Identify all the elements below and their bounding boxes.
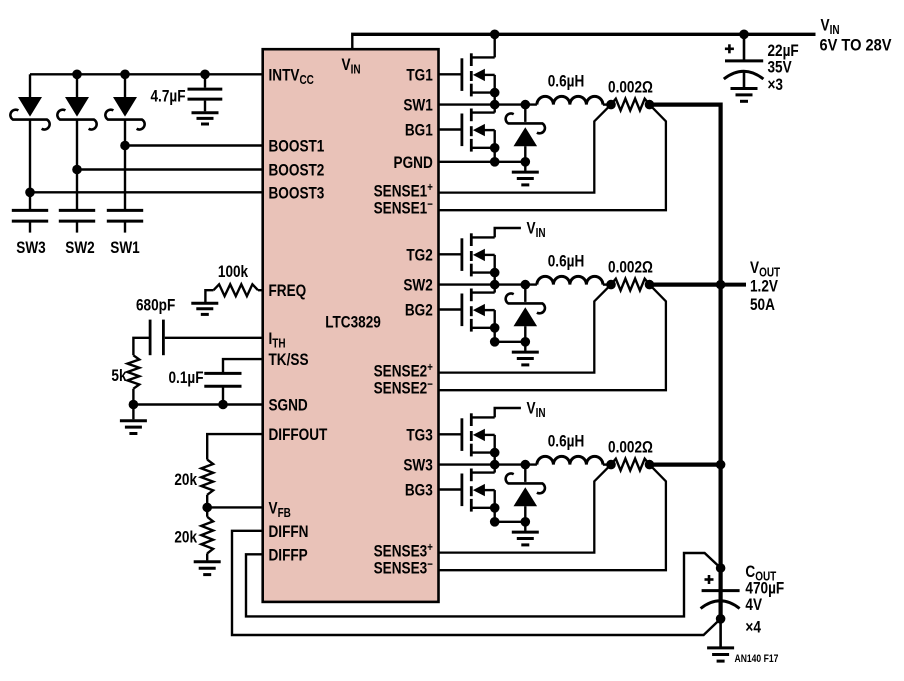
node junction R_S3 / output — [645, 460, 655, 470]
node junction D5 / INTVCC rail — [72, 70, 82, 80]
capacitor CIN 22uF plus sign — [725, 47, 734, 50]
svg-text:SGND: SGND — [269, 396, 308, 415]
svg-text:SW3: SW3 — [16, 239, 45, 258]
node junction SW2 / D2 cathode — [521, 280, 531, 290]
node junction BOOST2 / SW2 cap — [72, 165, 82, 175]
svg-text:PGND: PGND — [394, 153, 433, 172]
ground (phase 1) — [512, 172, 539, 185]
wire Q6 source to ground — [495, 521, 526, 523]
transistor Q2 bottom MOSFET phase 1 (BG1) — [439, 105, 500, 162]
wire 20k junction — [206, 495, 208, 517]
node junction COUT+ / VOUT rail — [716, 563, 726, 573]
node junction R_S1 / output — [645, 100, 655, 110]
wire D6 cathode to boost cap — [124, 120, 126, 211]
capacitor CIN 22uF top plate — [725, 59, 763, 62]
node junction Q1 drain / VIN rail — [490, 30, 500, 40]
svg-text:BG3: BG3 — [405, 481, 433, 500]
transistor Q5 top MOSFET phase 3 (TG3) — [439, 413, 500, 464]
svg-text:SW3: SW3 — [403, 456, 432, 475]
node junction phase 2 output / VOUT rail — [716, 280, 726, 290]
node junction D6 / INTVCC rail — [120, 70, 130, 80]
svg-text:SW1: SW1 — [403, 96, 433, 115]
wire SENSE1- — [439, 105, 666, 211]
wire COUT ground stub — [719, 619, 722, 647]
capacitor C3 0.1uF — [204, 373, 241, 404]
wire BOOST2 — [77, 168, 263, 170]
capacitor COUT top plate — [702, 589, 740, 592]
capacitor C_SW1 boost cap — [107, 210, 143, 232]
wire SW1 node — [439, 103, 537, 105]
schottky diode D6 (boost SW1) — [105, 74, 144, 129]
resistor R_S3 0.002 ohm — [611, 459, 650, 471]
svg-text:SENSE1+: SENSE1+ — [374, 181, 433, 201]
wire D3 anode ground stub — [524, 522, 526, 531]
resistor R_S2 0.002 ohm — [611, 279, 650, 291]
capacitor C1 4.7uF — [188, 74, 223, 111]
resistor R2 5k — [128, 355, 140, 388]
svg-text:BG2: BG2 — [405, 301, 433, 320]
wire SENSE3- — [439, 465, 666, 571]
svg-text:FREQ: FREQ — [269, 282, 307, 301]
svg-text:4V: 4V — [745, 596, 762, 615]
wire DIFFN to COUT ground side — [232, 531, 721, 635]
node junction 0.1uF / SGND wire — [218, 400, 228, 410]
svg-text:DIFFP: DIFFP — [269, 546, 308, 565]
svg-text:SW1: SW1 — [110, 239, 140, 258]
node junction VFB divider — [202, 503, 212, 513]
svg-text:TG2: TG2 — [406, 246, 432, 265]
wire D2 anode ground stub — [524, 342, 526, 351]
wire BOOST3 — [30, 191, 263, 193]
wire VOUT stub — [721, 283, 746, 287]
inductor L1 0.6uH — [537, 96, 603, 104]
wire Q1 drain to VIN rail — [494, 34, 496, 57]
svg-text:BOOST3: BOOST3 — [269, 184, 325, 203]
svg-text:LTC3829: LTC3829 — [325, 313, 381, 332]
svg-text:0.6µH: 0.6µH — [548, 432, 585, 451]
node junction L1 / R_S1 — [606, 100, 616, 110]
resistor R4 20k (bottom) — [201, 517, 213, 554]
svg-text:6V TO 28V: 6V TO 28V — [820, 37, 892, 55]
node junction Q4 source — [490, 337, 500, 347]
wire D5 cathode to boost cap — [76, 120, 78, 211]
node junction SW3 / FETs — [490, 460, 500, 470]
wire D4 cathode to boost cap — [29, 120, 31, 211]
wire 20k to ground — [206, 553, 208, 560]
svg-text:0.6µH: 0.6µH — [548, 72, 585, 91]
wire ITH pin — [165, 337, 263, 339]
schottky diode D2 phase 2 — [506, 285, 545, 342]
node junction COUT- / DIFFN — [716, 614, 726, 624]
node junction Q6 source — [490, 517, 500, 527]
node junction SW3 / D3 cathode — [521, 460, 531, 470]
svg-text:4.7µF: 4.7µF — [150, 87, 185, 106]
node junction L2 / R_S2 — [606, 280, 616, 290]
wire VIN riser from U1 VIN pin — [351, 36, 353, 50]
wire CIN top lead — [743, 34, 746, 60]
capacitor COUT plus sign — [705, 578, 714, 581]
svg-text:0.002Ω: 0.002Ω — [608, 438, 653, 457]
wire 5k to SGND — [132, 389, 134, 405]
svg-text:5k: 5k — [111, 367, 127, 386]
transistor Q3 top MOSFET phase 2 (TG2) — [439, 233, 500, 284]
capacitor COUT curved plate — [701, 601, 740, 609]
svg-text:BOOST1: BOOST1 — [269, 137, 325, 156]
op-amp U1 LTC3829 controller body — [263, 49, 439, 602]
svg-text:0.002Ω: 0.002Ω — [608, 78, 653, 97]
svg-text:SENSE3−: SENSE3− — [374, 558, 433, 578]
svg-text:100k: 100k — [218, 263, 249, 282]
resistor R_S1 0.002 ohm — [611, 99, 650, 111]
transistor Q1 top MOSFET phase 1 (TG1) — [439, 53, 500, 104]
node junction SW1 / FETs — [490, 100, 500, 110]
node junction CIN / VIN rail — [739, 30, 749, 40]
node junction C1 / INTVCC rail — [200, 70, 210, 80]
svg-text:TG3: TG3 — [406, 426, 432, 445]
node junction D1 anode — [521, 157, 531, 167]
svg-text:TG1: TG1 — [406, 66, 433, 85]
wire VIN input rail (top) — [351, 33, 815, 36]
svg-text:AN140 F17: AN140 F17 — [735, 653, 779, 665]
svg-text:0.002Ω: 0.002Ω — [608, 258, 653, 277]
wire COUT bottom lead — [719, 601, 722, 619]
node junction SW1 / D1 cathode — [521, 100, 531, 110]
node junction 5k / SGND — [129, 400, 139, 410]
wire DIFFOUT pin — [207, 434, 263, 460]
svg-text:35V: 35V — [768, 58, 793, 77]
node junction D2 anode — [521, 337, 531, 347]
resistor R1 100k — [214, 284, 259, 296]
wire Q4 source to ground — [495, 341, 526, 343]
ground (phase 3) — [512, 532, 539, 545]
resistor R3 20k (top) — [201, 460, 213, 495]
node junction SW2 / FETs — [490, 280, 500, 290]
ground (SGND) — [120, 421, 147, 434]
capacitor C_SW2 boost cap — [59, 210, 95, 232]
wire 100k to ground — [205, 290, 213, 304]
svg-text:680pF: 680pF — [136, 296, 175, 315]
wire Q3 drain to VIN — [495, 228, 521, 237]
svg-text:BG1: BG1 — [405, 121, 433, 140]
schottky diode D3 phase 3 — [506, 465, 545, 522]
wire phase 1 output / VOUT rail — [650, 105, 721, 619]
svg-text:SENSE1−: SENSE1− — [374, 198, 433, 218]
svg-text:SENSE2+: SENSE2+ — [374, 361, 433, 381]
inductor L3 0.6uH — [537, 456, 603, 464]
svg-text:TK/SS: TK/SS — [269, 351, 309, 370]
ground (COUT) — [707, 648, 734, 661]
svg-text:50A: 50A — [750, 296, 775, 315]
wire COUT top lead — [719, 568, 722, 589]
wire FREQ pin stub — [258, 289, 263, 291]
svg-text:BOOST2: BOOST2 — [269, 161, 325, 180]
transistor Q4 bottom MOSFET phase 2 (BG2) — [439, 285, 500, 342]
node junction L3 / R_S3 — [606, 460, 616, 470]
wire SW2 node — [439, 283, 537, 285]
node junction BOOST1 / SW1 cap — [120, 141, 130, 151]
svg-text:1.2V: 1.2V — [750, 277, 779, 296]
svg-text:SW2: SW2 — [65, 239, 94, 258]
wire phase 3 output — [650, 463, 723, 467]
capacitor C2 680pF — [150, 320, 163, 356]
wire SENSE2- — [439, 285, 666, 391]
wire 680pF to 5k — [133, 338, 150, 356]
schottky diode D5 (boost SW2) — [57, 74, 96, 129]
inductor L2 0.6uH — [537, 276, 603, 284]
schottky diode D1 phase 1 — [506, 105, 545, 162]
svg-text:0.1µF: 0.1µF — [168, 369, 203, 388]
wire SW3 node — [439, 463, 537, 465]
wire SENSE2+ — [439, 285, 612, 373]
wire DIFFP to VOUT sense — [246, 553, 721, 616]
svg-text:SW2: SW2 — [403, 276, 432, 295]
schottky diode D4 (boost SW3) — [10, 74, 49, 129]
node junction D3 anode — [521, 517, 531, 527]
wire Q5 drain to VIN — [495, 408, 521, 417]
wire SENSE3+ — [439, 465, 612, 553]
wire CIN bottom lead — [743, 72, 746, 88]
capacitor CIN 22uF curved plate — [724, 71, 764, 79]
wire phase 2 output — [650, 283, 723, 287]
capacitor C_SW3 boost cap — [12, 210, 48, 232]
svg-text:20k: 20k — [174, 528, 197, 547]
svg-text:20k: 20k — [174, 471, 197, 490]
node junction BOOST3 / SW3 cap — [25, 188, 35, 198]
wire SENSE1+ — [439, 105, 612, 193]
wire BOOST1 — [125, 144, 263, 146]
wire D1 anode ground stub — [524, 162, 526, 171]
ground (FREQ) — [191, 303, 218, 314]
svg-text:DIFFOUT: DIFFOUT — [269, 426, 328, 445]
svg-text:DIFFN: DIFFN — [269, 522, 309, 541]
svg-text:SENSE2−: SENSE2− — [374, 378, 433, 398]
svg-text:SENSE3+: SENSE3+ — [374, 541, 433, 561]
node junction R_S2 / output — [645, 280, 655, 290]
node junction phase 3 output / VOUT rail — [716, 460, 726, 470]
wire PGND pin to Q2 source — [439, 161, 526, 163]
wire TK/SS pin — [223, 359, 263, 372]
wire SGND ground stub — [132, 405, 134, 420]
node junction Q2 source — [490, 157, 500, 167]
svg-text:×3: ×3 — [768, 76, 783, 95]
wire SGND pin — [133, 403, 262, 405]
ground (CIN) — [731, 89, 758, 102]
svg-text:×4: ×4 — [745, 618, 761, 637]
wire VFB pin — [207, 506, 263, 508]
svg-text:0.6µH: 0.6µH — [548, 252, 585, 271]
transistor Q6 bottom MOSFET phase 3 (BG3) — [439, 465, 500, 522]
ground (C1) — [192, 113, 219, 124]
wire INTVCC rail (left top) — [30, 73, 263, 75]
ground (feedback divider) — [194, 562, 221, 575]
ground (phase 2) — [512, 352, 539, 365]
